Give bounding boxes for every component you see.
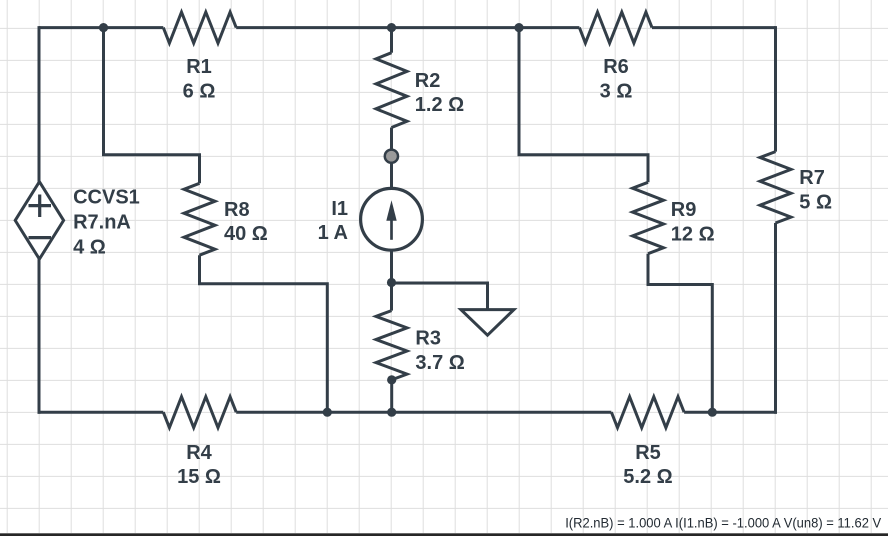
svg-text:R9: R9 <box>671 199 697 221</box>
svg-text:R7: R7 <box>799 167 825 189</box>
wire node A drop from top rail <box>104 28 200 184</box>
svg-text:15 Ω: 15 Ω <box>177 466 221 488</box>
current source I1 circle <box>361 188 423 250</box>
svg-text:R5: R5 <box>635 442 661 464</box>
junction node B top <box>514 23 523 32</box>
wire I1 bottom to junction <box>390 252 393 284</box>
svg-text:5.2 Ω: 5.2 Ω <box>623 466 672 488</box>
svg-text:1.2 Ω: 1.2 Ω <box>415 94 464 116</box>
resistor R3 <box>376 311 407 380</box>
svg-text:40 Ω: 40 Ω <box>224 223 268 245</box>
svg-text:R6: R6 <box>603 56 629 78</box>
junction bottom rail R3 <box>387 408 396 417</box>
node un8 highlighted <box>385 150 398 163</box>
svg-text:I(R2.nB) = 1.000 A I(I1.nB) =: I(R2.nB) = 1.000 A I(I1.nB) = -1.000 A V… <box>565 514 882 530</box>
resistor R7 <box>760 152 791 223</box>
resistor R2 <box>376 53 407 128</box>
wire top rail middle <box>236 26 579 29</box>
svg-text:4 Ω: 4 Ω <box>73 236 106 258</box>
svg-text:3 Ω: 3 Ω <box>600 80 633 102</box>
wire R3 bottom to bottom rail <box>390 380 393 412</box>
svg-text:1 A: 1 A <box>318 222 348 244</box>
wire CCVS1 bottom to bottom rail <box>38 259 41 414</box>
wire R9 bottom to bottom rail <box>648 254 712 413</box>
junction bottom rail R9 branch <box>708 408 717 417</box>
resistor R1 <box>163 12 236 43</box>
junction bottom rail R8 branch <box>323 408 332 417</box>
svg-text:12 Ω: 12 Ω <box>671 223 715 245</box>
wire R2 top <box>390 28 393 53</box>
svg-text:R4: R4 <box>186 442 212 464</box>
svg-text:I1: I1 <box>331 198 348 220</box>
wire R8 bottom to bottom rail <box>200 255 328 412</box>
status bar <box>0 533 888 534</box>
resistor R6 <box>579 12 652 43</box>
wire right branch top <box>774 26 777 152</box>
junction R2 top <box>387 23 396 32</box>
wire R2 bottom to node un8 <box>390 128 393 151</box>
wire bottom rail right <box>684 411 777 414</box>
resistor R8 <box>184 183 215 255</box>
resistor R4 <box>163 397 236 428</box>
wire bottom rail middle <box>236 411 611 414</box>
resistor R9 <box>633 182 664 253</box>
junction top-left <box>99 23 108 32</box>
wire node un8 to I1 top <box>390 162 393 190</box>
junction I1 bottom <box>387 278 396 287</box>
junction R3 bottom terminal <box>387 375 396 384</box>
wire top rail left <box>39 26 163 29</box>
wire bottom rail left <box>38 411 164 414</box>
wire node B drop from top rail <box>519 28 648 183</box>
wire right branch bottom <box>774 223 777 414</box>
svg-text:R2: R2 <box>415 70 441 92</box>
svg-text:5 Ω: 5 Ω <box>799 191 832 213</box>
svg-text:6 Ω: 6 Ω <box>183 80 216 102</box>
svg-text:R1: R1 <box>186 56 212 78</box>
svg-text:CCVS1: CCVS1 <box>73 187 140 209</box>
svg-text:R7.nA: R7.nA <box>73 212 131 234</box>
source CCVS1 diamond <box>15 182 63 259</box>
svg-text:3.7 Ω: 3.7 Ω <box>415 352 464 374</box>
svg-text:R8: R8 <box>224 199 250 221</box>
wire junction to R3 <box>390 283 393 311</box>
wire junction to ground <box>392 283 488 310</box>
wire left branch down to CCVS1 <box>38 26 41 182</box>
ground symbol <box>461 310 514 336</box>
wire top rail right <box>652 26 776 29</box>
resistor R5 <box>611 397 684 428</box>
svg-text:R3: R3 <box>415 328 441 350</box>
